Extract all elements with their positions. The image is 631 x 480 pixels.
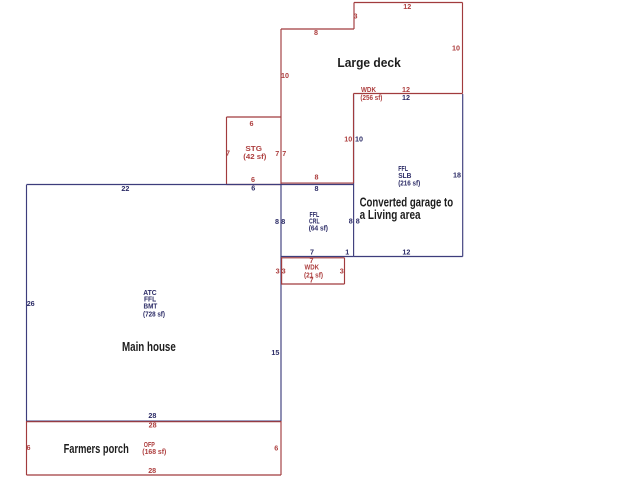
svg-text:Main house: Main house xyxy=(122,340,176,354)
wall: farmers porch right xyxy=(280,421,282,475)
wall: farmers porch bottom xyxy=(27,474,282,476)
wall: garage right xyxy=(462,94,464,257)
svg-text:Farmers porch: Farmers porch xyxy=(64,442,129,456)
wall: garage left (blue) xyxy=(353,95,355,257)
svg-text:a Living area: a Living area xyxy=(360,208,422,222)
svg-text:12: 12 xyxy=(403,2,411,11)
svg-text:12: 12 xyxy=(402,247,410,256)
svg-text:3: 3 xyxy=(354,12,358,21)
svg-text:8: 8 xyxy=(314,28,318,37)
svg-text:28: 28 xyxy=(148,411,156,420)
svg-text:6: 6 xyxy=(27,443,31,452)
svg-text:26: 26 xyxy=(27,299,35,308)
svg-text:8: 8 xyxy=(349,217,353,226)
wall: garage bottom xyxy=(354,256,463,258)
svg-text:(42 sf): (42 sf) xyxy=(243,152,267,161)
wall: farmers porch left xyxy=(26,421,28,475)
wall: deck step horizontal xyxy=(281,28,354,30)
svg-text:(168 sf): (168 sf) xyxy=(142,447,167,456)
wall: STG bottom xyxy=(227,184,282,186)
wall: WDK porch bottom xyxy=(281,283,345,285)
svg-text:6: 6 xyxy=(250,119,254,128)
svg-text:8: 8 xyxy=(281,217,285,226)
svg-text:12: 12 xyxy=(402,93,410,102)
wall: STG left xyxy=(226,117,228,185)
wall: deck left xyxy=(280,29,282,184)
svg-text:(64 sf): (64 sf) xyxy=(309,224,329,233)
wall: deck right xyxy=(462,3,464,94)
wall: STG top xyxy=(227,116,282,118)
svg-text:7: 7 xyxy=(275,149,279,158)
svg-text:10: 10 xyxy=(344,135,352,144)
svg-text:10: 10 xyxy=(452,43,460,52)
wall: deck/garage divider WDK line xyxy=(354,93,463,95)
svg-text:7: 7 xyxy=(310,276,314,285)
wall: WDK porch right xyxy=(344,258,346,284)
wall: deck step vertical xyxy=(353,3,355,30)
svg-text:3: 3 xyxy=(282,267,286,276)
svg-text:(21 sf): (21 sf) xyxy=(304,271,324,280)
svg-text:(216 sf): (216 sf) xyxy=(398,179,421,188)
svg-text:22: 22 xyxy=(121,184,129,193)
wall: deck top xyxy=(354,2,463,4)
svg-text:28: 28 xyxy=(148,466,156,475)
svg-text:3: 3 xyxy=(276,267,280,276)
wall: main house left xyxy=(26,185,28,421)
wall: deck bottom xyxy=(281,182,354,184)
svg-text:15: 15 xyxy=(271,348,279,357)
wall: WDK porch top xyxy=(281,257,345,259)
svg-text:6: 6 xyxy=(251,175,255,184)
svg-text:1: 1 xyxy=(345,248,349,257)
svg-text:8: 8 xyxy=(315,173,319,182)
svg-text:8: 8 xyxy=(275,217,279,226)
wall: WDK porch left overlay xyxy=(281,258,283,284)
svg-text:10: 10 xyxy=(355,135,363,144)
svg-text:(256 sf): (256 sf) xyxy=(360,93,383,102)
svg-text:(728 sf): (728 sf) xyxy=(143,310,166,319)
svg-text:7: 7 xyxy=(282,149,286,158)
svg-text:Large deck: Large deck xyxy=(337,56,400,70)
wall: CRL bottom xyxy=(281,256,354,258)
wall: main house bottom xyxy=(27,420,282,422)
wall: farmers porch top xyxy=(27,421,282,423)
svg-text:7: 7 xyxy=(226,149,230,158)
svg-text:18: 18 xyxy=(453,171,461,180)
svg-text:8: 8 xyxy=(315,184,319,193)
wall: deck inner left shared with garage xyxy=(353,94,355,184)
wall: main house top xyxy=(27,184,354,186)
svg-text:28: 28 xyxy=(149,420,157,429)
svg-text:10: 10 xyxy=(281,71,289,80)
wall: main house right xyxy=(280,185,282,421)
svg-text:3: 3 xyxy=(340,267,344,276)
svg-text:6: 6 xyxy=(274,443,278,452)
svg-text:6: 6 xyxy=(251,184,255,193)
